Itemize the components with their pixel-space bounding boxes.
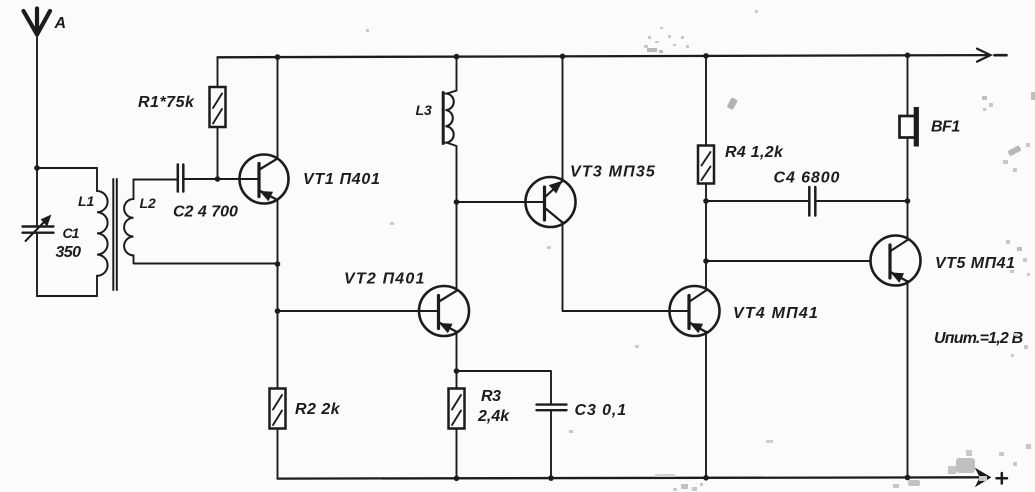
svg-text:R3: R3: [481, 388, 501, 405]
svg-text:L1: L1: [78, 193, 95, 209]
svg-text:BF1: BF1: [931, 119, 960, 136]
svg-text:R4 1,2k: R4 1,2k: [725, 144, 784, 161]
svg-text:R2 2k: R2 2k: [295, 401, 341, 418]
svg-text:350: 350: [56, 244, 82, 261]
svg-text:C3 0,1: C3 0,1: [575, 402, 628, 419]
svg-text:VT4 МП41: VT4 МП41: [733, 305, 819, 322]
svg-text:C4 6800: C4 6800: [774, 170, 841, 187]
svg-text:L3: L3: [416, 102, 433, 118]
svg-text:VT3 МП35: VT3 МП35: [570, 164, 656, 181]
svg-text:Uпит.=1,2 В: Uпит.=1,2 В: [934, 330, 1023, 347]
svg-text:R1*75k: R1*75k: [138, 94, 195, 111]
svg-text:VT5 МП41: VT5 МП41: [935, 255, 1015, 272]
svg-text:C2 4 700: C2 4 700: [173, 204, 238, 221]
svg-text:A: A: [54, 15, 66, 32]
svg-text:VT1 П401: VT1 П401: [303, 171, 381, 188]
svg-text:C1: C1: [63, 225, 80, 241]
svg-text:VT2 П401: VT2 П401: [344, 271, 426, 288]
svg-text:2,4k: 2,4k: [477, 408, 510, 425]
svg-text:L2: L2: [140, 195, 157, 211]
